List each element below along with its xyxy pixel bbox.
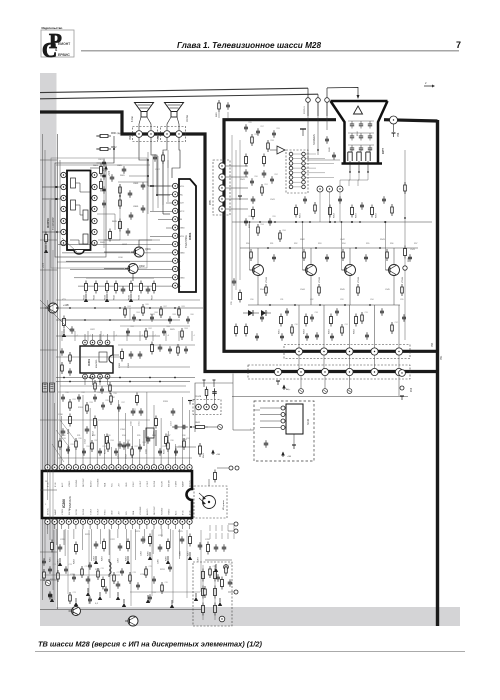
ground cluster 2 xyxy=(106,294,108,298)
left col part a xyxy=(154,154,156,157)
resistor VT903 emitter xyxy=(357,284,359,287)
svg-text:IF-IN: IF-IN xyxy=(190,510,192,515)
IC200 pin bottom lead 20 xyxy=(181,524,183,529)
svg-text:R93: R93 xyxy=(318,243,321,245)
CRT gun cap 01 xyxy=(359,123,363,125)
wire to IC200 top pin 2 xyxy=(54,403,56,460)
capacitor dense3-0 xyxy=(62,394,64,397)
svg-text:VT901: VT901 xyxy=(266,276,268,283)
row2 connector pin 5 xyxy=(371,368,378,375)
open pin pair 2a xyxy=(234,522,238,526)
svg-text:C21: C21 xyxy=(213,566,216,568)
wire base drop 3 xyxy=(341,222,343,270)
cap VT901 c xyxy=(273,254,275,257)
resistor R211 xyxy=(207,542,209,545)
P6 section border xyxy=(195,383,233,432)
svg-text:+12В: +12В xyxy=(63,304,69,307)
CRT gun cap 02 xyxy=(368,123,372,125)
cap C303 xyxy=(159,344,161,347)
capacitor dense4-5 xyxy=(89,562,91,565)
wire IR up xyxy=(208,479,210,486)
svg-text:C29: C29 xyxy=(149,566,152,568)
cap chain right of IC3053 1 xyxy=(103,159,105,162)
svg-text:R35: R35 xyxy=(106,400,109,402)
module pin 3 xyxy=(281,419,285,423)
svg-text:IC200: IC200 xyxy=(62,499,66,508)
IC3053 pin R6 xyxy=(92,229,97,234)
resistor R209-1 xyxy=(214,586,216,589)
wire to IC200 top pin 15 xyxy=(146,392,148,460)
P881 pin 3 xyxy=(219,185,225,191)
P6 pin 3 xyxy=(212,404,218,410)
deep wire below IC200 4 xyxy=(130,530,132,606)
capacitor C316 xyxy=(147,436,149,439)
wire from IC200 bottom pin 6 xyxy=(91,529,93,561)
crystal X301 body xyxy=(146,428,154,438)
IR arrow 2 xyxy=(199,498,205,503)
bus dense3 c xyxy=(58,457,192,459)
resistor dense3-10 xyxy=(75,438,77,441)
svg-text:SYNC: SYNC xyxy=(133,481,135,487)
wire pin c down xyxy=(326,102,328,116)
cap VT902 c xyxy=(326,254,328,257)
bus junction 2 xyxy=(119,307,121,309)
IC200 pin top 2 xyxy=(52,465,57,470)
cap C640 xyxy=(214,389,216,392)
resistor R961 xyxy=(280,314,282,317)
connector P601 pin 2 xyxy=(148,131,155,138)
cap chain right of IC3053 3 xyxy=(103,186,105,189)
resistor R210 xyxy=(102,577,104,580)
CRT gun cap 20 xyxy=(350,147,354,149)
video conn pin R2 xyxy=(302,157,306,161)
svg-text:IF-IN: IF-IN xyxy=(48,482,50,487)
P881 pin 5 xyxy=(219,206,225,212)
svg-text:C98: C98 xyxy=(315,312,318,314)
IR arrow 1 xyxy=(199,493,205,498)
crt left long wire 3 xyxy=(239,140,241,280)
speaker BA1 cone xyxy=(135,103,154,112)
capacitor mid8-10 xyxy=(163,328,165,331)
svg-text:R97: R97 xyxy=(414,243,417,245)
svg-text:R36: R36 xyxy=(127,440,130,442)
tbar P04 xyxy=(400,395,404,397)
audio bundle vertical wire 4 xyxy=(162,158,164,205)
capacitor C206 xyxy=(181,536,183,539)
resistor R963 xyxy=(330,314,332,317)
wire right col2 xyxy=(404,258,406,340)
tbar screen xyxy=(300,128,306,130)
wire below row2 at 301 xyxy=(300,376,302,389)
socket lower pin 3 xyxy=(366,152,370,161)
IC200 pin top 20 xyxy=(180,465,185,470)
video conn out wire 1 xyxy=(306,153,317,155)
top bus wire 1 xyxy=(40,88,308,92)
wire from IC200 bottom pin 7 xyxy=(99,529,101,544)
wire from IC200 bottom pin 8 xyxy=(108,529,110,555)
transistor Q604 xyxy=(48,303,58,313)
junction base 2 xyxy=(302,221,304,223)
svg-text:Q601: Q601 xyxy=(145,249,151,251)
svg-text:GND: GND xyxy=(112,510,114,515)
IC200 pin top lead 20 xyxy=(181,460,183,465)
module pin wire 2 xyxy=(260,414,281,416)
IC3053 inner switch 1 xyxy=(71,178,76,188)
wire to IC200 top pin 20 xyxy=(181,397,183,460)
wire VT901 collector xyxy=(257,248,259,265)
IC200 pin top lead 9 xyxy=(103,460,105,465)
capacitor dense3-16 xyxy=(123,442,125,445)
bus junction 0 xyxy=(69,307,71,309)
wire to IC200 top pin 18 xyxy=(167,431,169,460)
open pin pair 1a xyxy=(229,466,233,470)
outer section frame xyxy=(51,158,147,268)
video conn link 8 xyxy=(293,186,302,188)
IC200 pin top lead 14 xyxy=(139,460,141,465)
wire P881 pin 2 xyxy=(225,176,248,178)
IC200 pin top lead 13 xyxy=(132,460,134,465)
resistor R957 xyxy=(263,154,265,157)
CRT funnel xyxy=(331,101,388,164)
capacitor C205 xyxy=(159,544,161,547)
CRT gun row lead 2 xyxy=(348,144,374,146)
capacitor dense7-3 xyxy=(361,202,363,205)
left bus wire f xyxy=(52,250,54,590)
wire module feed h xyxy=(233,429,254,431)
wire net h2 xyxy=(60,319,130,321)
resistor dense3-14 xyxy=(107,440,109,443)
vertical feed wire 7 xyxy=(152,331,154,341)
capacitor dense4-22 xyxy=(149,594,151,597)
connector P602 pin 1 xyxy=(164,131,171,138)
svg-text:R92: R92 xyxy=(275,174,278,176)
resistor mid9-2 xyxy=(61,362,63,365)
IC801 pin 4 xyxy=(173,208,178,213)
bus mid 2 xyxy=(56,319,180,321)
resistor dense6-8 xyxy=(341,324,343,327)
cap C304 xyxy=(101,386,103,389)
wire to IC200 top pin 13 xyxy=(132,426,134,460)
video conn link 1 xyxy=(293,153,302,155)
svg-text:R65: R65 xyxy=(146,304,149,306)
socket lower pin 2 xyxy=(357,152,361,161)
IC301 pin B3 xyxy=(98,374,103,379)
wire to IC200 top pin 9 xyxy=(103,434,105,460)
vertical feed wire 3 xyxy=(100,331,102,341)
wire r pair xyxy=(228,523,234,525)
junction crt 2 xyxy=(329,221,331,223)
IC301 wire T2 xyxy=(92,334,94,340)
resistor dense6-10 xyxy=(391,322,393,325)
wire to IC200 top pin 11 xyxy=(118,400,120,460)
wire socketpin down 1 xyxy=(340,172,350,186)
wire from IC200 bottom pin 15 xyxy=(170,529,172,548)
IC3053 pin L5 xyxy=(61,218,66,223)
svg-text:P04: P04 xyxy=(431,342,434,347)
speaker BA1 cone hatch xyxy=(138,104,151,106)
svg-text:AGC: AGC xyxy=(175,510,178,515)
wire P602.2 down xyxy=(179,138,180,161)
wire rows at 299 xyxy=(298,355,300,369)
P04 pin xyxy=(399,370,406,377)
resistor dense3-8 xyxy=(59,438,61,441)
IC801 pin 11 xyxy=(173,266,178,271)
ground b1 xyxy=(87,588,89,592)
wire to IC801 pin 5 xyxy=(158,219,173,221)
diag fan 3 xyxy=(52,444,64,462)
bus junction 39 xyxy=(119,195,121,197)
bus junction 13 xyxy=(69,381,71,383)
svg-text:R32: R32 xyxy=(92,435,95,437)
cap C211 xyxy=(223,544,225,547)
resistor R202 xyxy=(75,542,77,545)
svg-text:R38: R38 xyxy=(63,438,66,440)
cap C607b xyxy=(123,166,125,169)
resistor R620b xyxy=(119,219,121,222)
svg-text:P881: P881 xyxy=(210,199,212,205)
wire to IC200 top pin 14 xyxy=(139,439,141,460)
wire to IC200 top pin 8 xyxy=(96,421,98,460)
capacitor dense6-5 xyxy=(381,308,383,311)
capacitor mid9-3 xyxy=(69,368,71,371)
bus junction 8 xyxy=(63,377,65,379)
cap C612 xyxy=(147,286,149,289)
svg-text:R94: R94 xyxy=(342,243,345,245)
module pin wire 3 xyxy=(260,420,281,422)
svg-text:VOLUME: VOLUME xyxy=(140,506,142,515)
wire top anode xyxy=(327,87,358,96)
IC200 pin top lead 3 xyxy=(61,460,63,465)
junction base 1 xyxy=(249,221,251,223)
video conn pin L3 xyxy=(289,162,293,166)
svg-text:DECOUP: DECOUP xyxy=(83,478,85,487)
bus mid 3 xyxy=(56,335,160,337)
svg-text:+4: +4 xyxy=(115,335,117,337)
svg-text:IC301: IC301 xyxy=(87,359,91,366)
video conn pin L6 xyxy=(289,176,293,180)
svg-text:SCREEN: SCREEN xyxy=(312,134,316,145)
IC801 body xyxy=(179,179,196,292)
IC200 pin bottom 10 xyxy=(109,519,114,524)
deep wire below IC200 2 xyxy=(88,530,90,604)
bus junction 38 xyxy=(103,189,105,191)
publisher logo box xyxy=(41,30,74,57)
svg-text:R60: R60 xyxy=(191,314,194,316)
wire rows at 374.5 xyxy=(374,355,376,369)
left bus wire e xyxy=(49,200,51,540)
cap VT903 c xyxy=(365,254,367,257)
svg-text:R613: R613 xyxy=(105,294,107,300)
svg-text:C90: C90 xyxy=(295,324,298,326)
IC200 pin top 7 xyxy=(87,465,92,470)
resistor R303 xyxy=(94,380,96,383)
bus junction 35 xyxy=(56,231,58,233)
bus junction 34 xyxy=(56,198,58,200)
wire VT904 emitter xyxy=(393,276,395,306)
IC200 pin bottom 4 xyxy=(66,519,71,524)
capacitor dense7-2 xyxy=(339,196,341,199)
wire audio bundle 2 xyxy=(157,194,170,196)
video conn link 7 xyxy=(293,181,302,183)
row1 connector pin 1 xyxy=(295,348,302,355)
wire to IC801 pin 3 xyxy=(166,202,173,204)
diag fan 2 xyxy=(56,430,70,448)
svg-text:R93: R93 xyxy=(249,216,252,218)
resistor R960 xyxy=(245,324,247,327)
wire speaker1 left lead xyxy=(139,117,141,130)
svg-text:H-OUT: H-OUT xyxy=(140,480,142,487)
bus junction 24 xyxy=(289,247,291,249)
svg-text:TDA8362A: TDA8362A xyxy=(68,496,72,510)
row2 connector pin 4 xyxy=(346,368,353,375)
cap C805 xyxy=(142,205,144,208)
wire to IC801 pin 1 xyxy=(150,185,173,187)
IC200 pin bottom lead 11 xyxy=(118,524,120,529)
svg-text:R69: R69 xyxy=(182,306,185,308)
cap C881 above CRT xyxy=(227,102,229,105)
IC301 wire B1 xyxy=(84,379,86,385)
IC200 pin top lead 1 xyxy=(47,460,49,465)
svg-text:R90: R90 xyxy=(246,243,249,245)
resistor R602 xyxy=(97,148,100,150)
capacitor C203 xyxy=(119,543,121,546)
svg-text:+5В: +5В xyxy=(216,454,220,456)
vertical feed wire 9 xyxy=(178,331,180,341)
left col part c xyxy=(169,346,171,349)
wire P881 pin 4 xyxy=(225,198,248,200)
speaker BA2 cone hatch xyxy=(168,104,181,106)
P04 sub pin xyxy=(400,386,404,390)
IC200 pin bottom lead 12 xyxy=(125,524,127,529)
capacitor dense3-13 xyxy=(99,448,101,451)
P881 dashed box xyxy=(213,160,230,215)
resistor mid8-6 xyxy=(178,306,180,309)
capacitor dense3-2 xyxy=(78,394,80,397)
IC3053 pin R4 xyxy=(92,206,97,211)
diagonal wire 2 xyxy=(40,300,70,330)
module pin 4 xyxy=(281,426,285,430)
resistor R615 xyxy=(130,281,132,284)
capacitor dense6-11 xyxy=(403,314,405,317)
wire top bus stub 3 xyxy=(326,88,328,98)
capacitor dense5-5 xyxy=(251,178,253,181)
IC3053 inner switch 4 xyxy=(83,234,88,244)
IC200 pin bottom 1 xyxy=(45,519,50,524)
capacitor mid9-0 xyxy=(61,348,63,351)
left column net 1 xyxy=(98,239,160,241)
top right tick 2 xyxy=(424,85,432,87)
capacitor C204 xyxy=(142,536,144,539)
IC200 pin bottom 13 xyxy=(130,519,135,524)
wire from IC200 bottom pin 12 xyxy=(143,529,145,543)
wire P08 down xyxy=(393,124,395,132)
resistor R301 xyxy=(121,349,123,352)
svg-text:V-OUT: V-OUT xyxy=(147,480,149,487)
deep wire below IC200 0 xyxy=(53,530,55,600)
wire to IC801 pin 6 xyxy=(166,227,173,229)
wire to IC200 top pin 21 xyxy=(189,410,191,460)
wire pin a down xyxy=(307,102,309,116)
junction rc xyxy=(190,426,192,428)
bus crt y305 xyxy=(248,304,400,306)
IC200 pin bottom lead 8 xyxy=(96,524,98,529)
ground under IC200 at 128 xyxy=(127,556,129,560)
module dashed box xyxy=(254,401,314,461)
wire from IC200 bottom pin 4 xyxy=(73,529,75,539)
capacitor mid8-7 xyxy=(187,316,189,319)
speaker BA2 cone xyxy=(165,103,184,112)
capacitor dense5-8 xyxy=(245,218,247,221)
ground dense4-5 xyxy=(171,600,173,604)
IC200 pin top 4 xyxy=(66,465,71,470)
svg-text:R32: R32 xyxy=(187,438,190,440)
wire dense4 stub 3 xyxy=(227,525,229,531)
bus junction 22 xyxy=(384,221,386,223)
wire dense4 stub 7 xyxy=(221,533,223,539)
resistor R212 xyxy=(221,577,223,580)
wire from IC200 bottom pin 11 xyxy=(135,529,137,560)
bus junction 9 xyxy=(89,377,91,379)
wire VT901 emitter xyxy=(257,276,259,306)
socket lower pin 1 xyxy=(348,152,352,161)
socket lower pin lead 1 xyxy=(349,161,351,172)
svg-text:SDA: SDA xyxy=(132,510,135,515)
grey bar stub 5 xyxy=(40,489,57,491)
wire to IC200 top pin 1 xyxy=(47,390,49,460)
striped connector a xyxy=(43,383,48,392)
cap C611 xyxy=(122,286,124,289)
P881 pin 2 xyxy=(219,174,225,180)
capacitor C312 xyxy=(127,441,129,444)
wire socketpin down 3 xyxy=(358,172,368,186)
svg-text:C95: C95 xyxy=(400,299,403,301)
bus junction 5 xyxy=(84,319,86,321)
resistor R312 xyxy=(94,416,96,419)
cap C620b xyxy=(127,228,129,231)
svg-text:АЦ+: АЦ+ xyxy=(286,388,291,391)
svg-text:FOCUS: FOCUS xyxy=(304,106,306,114)
deep wire below IC200 8 xyxy=(200,530,202,592)
IC200 pin bottom 15 xyxy=(144,519,149,524)
resistor R205 xyxy=(149,534,151,537)
transistor VT904 xyxy=(389,265,400,276)
svg-text:C25: C25 xyxy=(85,566,88,568)
wire cluster top xyxy=(86,277,154,279)
svg-text:V-OUT: V-OUT xyxy=(90,508,92,515)
top bus wire 2 xyxy=(40,94,318,99)
capacitor dense6-0 xyxy=(261,314,263,317)
wire top bus to CRT pin 2 xyxy=(317,94,319,97)
wire amp in xyxy=(270,149,277,151)
P881 pin 4 xyxy=(219,196,225,202)
bus junction 36 xyxy=(56,307,58,309)
IC200 pin top lead 11 xyxy=(118,460,120,465)
svg-text:C28: C28 xyxy=(133,572,136,574)
wire VT903 emitter xyxy=(349,276,351,306)
cap C642 xyxy=(180,426,183,428)
ground under IC200 at 96 xyxy=(95,556,97,560)
P6 section pin 2 xyxy=(213,380,215,387)
wire base drop 1 xyxy=(249,222,251,270)
IC801 pin 5 xyxy=(173,217,178,222)
connector P601 dashed box xyxy=(133,127,158,142)
capacitor dense3-4 xyxy=(94,394,96,397)
ground dense4-2 xyxy=(99,592,101,596)
capacitor dense4-2 xyxy=(65,566,67,569)
IC200 pin top 18 xyxy=(166,465,171,470)
module pin 2 xyxy=(281,413,285,417)
left col part d xyxy=(177,344,179,347)
